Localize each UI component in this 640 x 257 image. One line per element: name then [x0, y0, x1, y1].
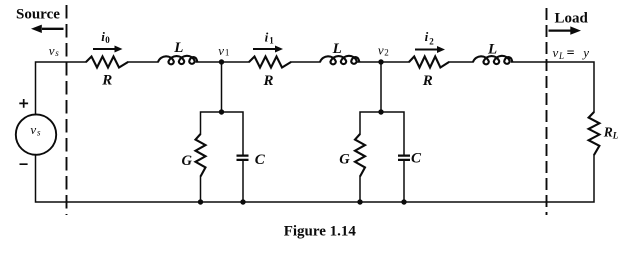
- svg-text:1: 1: [225, 48, 230, 58]
- svg-text:Load: Load: [555, 10, 589, 26]
- svg-text:v: v: [553, 45, 559, 60]
- svg-text:v: v: [30, 122, 36, 137]
- svg-text:L: L: [332, 41, 342, 57]
- svg-text:y: y: [581, 45, 589, 60]
- svg-text:Figure 1.14: Figure 1.14: [284, 223, 357, 239]
- svg-text:R: R: [422, 73, 433, 89]
- svg-text:v: v: [378, 42, 384, 57]
- svg-text:L: L: [173, 40, 183, 56]
- svg-text:s: s: [55, 48, 59, 58]
- svg-text:i: i: [425, 29, 429, 44]
- svg-text:C: C: [411, 151, 422, 167]
- svg-text:L: L: [487, 42, 497, 58]
- svg-text:s: s: [37, 127, 41, 137]
- svg-text:L: L: [612, 131, 619, 141]
- svg-text:2: 2: [384, 47, 389, 57]
- svg-text:G: G: [182, 153, 193, 169]
- svg-text:L: L: [558, 51, 564, 61]
- svg-text:v: v: [218, 43, 224, 58]
- svg-text:R: R: [263, 73, 274, 89]
- svg-text:G: G: [339, 152, 350, 168]
- svg-text:i: i: [265, 29, 269, 44]
- svg-text:C: C: [255, 152, 266, 168]
- svg-text:=: =: [567, 46, 575, 61]
- svg-text:0: 0: [105, 35, 110, 45]
- svg-text:R: R: [603, 124, 613, 139]
- svg-text:v: v: [49, 43, 55, 58]
- svg-text:Source: Source: [16, 7, 60, 23]
- svg-text:1: 1: [269, 36, 274, 46]
- svg-text:2: 2: [429, 37, 434, 47]
- svg-text:R: R: [101, 72, 112, 88]
